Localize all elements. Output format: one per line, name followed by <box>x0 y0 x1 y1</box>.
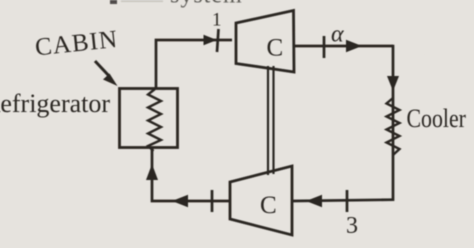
turbine C (bottom trapezoid) <box>230 166 292 235</box>
svg-text:Refrigerator: Refrigerator <box>0 89 110 118</box>
refrigerator coil <box>148 89 161 151</box>
wire right vertical <box>392 45 395 201</box>
shaft (double line between compressor and turbine) <box>268 66 274 175</box>
label CABIN <box>34 26 120 62</box>
flow arrow down into cooler <box>387 76 399 91</box>
svg-text:1: 1 <box>212 10 222 31</box>
flow arrow up into refrigerator <box>146 164 158 180</box>
node label 3 <box>346 213 358 239</box>
compressor C (top trapezoid) <box>236 11 294 73</box>
state tick (turbine outlet) <box>211 190 214 212</box>
refrigerator box <box>120 89 178 148</box>
flow arrow to cooler <box>346 40 362 52</box>
wire refrigerator top to compressor inlet <box>156 40 232 89</box>
caption fragment "system" (bottom-clipped at top edge) <box>110 0 243 9</box>
wire turbine outlet to refrigerator <box>152 147 230 201</box>
svg-text:system: system <box>170 0 243 9</box>
svg-text:3: 3 <box>346 213 358 239</box>
cooler coil <box>387 98 400 155</box>
label Cooler <box>407 105 466 133</box>
svg-text:Cooler: Cooler <box>407 105 466 133</box>
label C (bottom) <box>260 192 277 219</box>
flow arrow into turbine <box>306 195 322 207</box>
svg-text:C: C <box>260 192 277 219</box>
flow arrow turbine outlet (left) <box>172 195 188 207</box>
state tick 1 <box>217 29 219 52</box>
node label alpha <box>331 22 344 48</box>
node label 1 <box>212 10 222 31</box>
svg-text:α: α <box>331 22 344 48</box>
label Refrigerator (clipped at left edge) <box>0 89 110 118</box>
state tick alpha <box>323 36 326 58</box>
arrow CABIN pointer <box>95 61 118 86</box>
wire cooler to turbine (bottom right) <box>293 200 393 201</box>
flow arrow into compressor <box>204 35 218 45</box>
wire compressor outlet (top right) <box>294 45 393 48</box>
label C (top) <box>267 35 284 62</box>
state tick 3 <box>346 190 349 212</box>
svg-text:C: C <box>267 35 284 62</box>
